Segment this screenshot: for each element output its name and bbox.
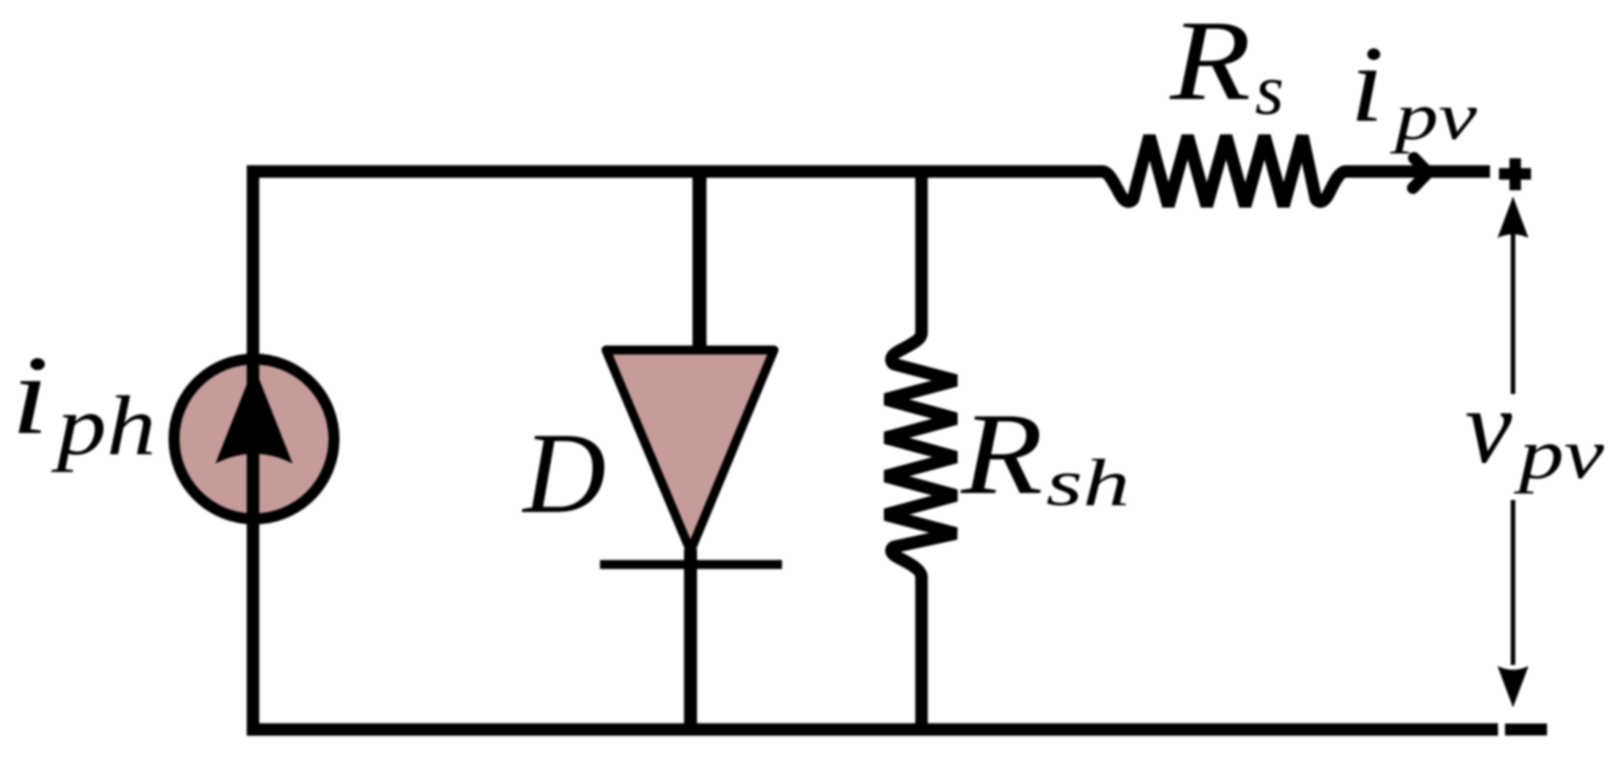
svg-text:i: i xyxy=(11,333,49,458)
svg-text:R: R xyxy=(960,390,1043,519)
svg-text:pv: pv xyxy=(1390,78,1478,154)
svg-text:D: D xyxy=(521,410,606,537)
svg-text:ph: ph xyxy=(51,379,156,473)
svg-text:v: v xyxy=(1465,368,1513,485)
svg-text:i: i xyxy=(1350,24,1384,145)
svg-text:s: s xyxy=(1255,50,1284,130)
svg-text:pv: pv xyxy=(1513,414,1604,494)
svg-text:sh: sh xyxy=(1046,446,1130,520)
svg-text:R: R xyxy=(1169,0,1251,124)
